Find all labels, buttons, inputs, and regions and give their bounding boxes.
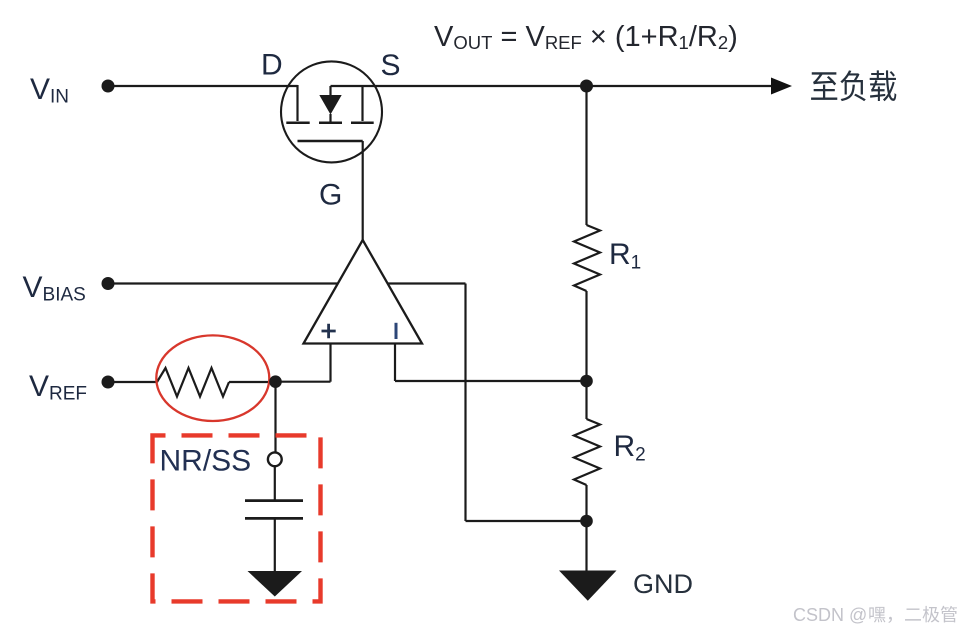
svg-text:D: D	[261, 49, 283, 82]
wire resistor to VREF node	[229, 381, 276, 383]
transistor Q1 source vertical	[361, 85, 363, 121]
node ground junction dot	[580, 515, 593, 528]
wire VOUT to R1	[585, 86, 587, 225]
wire midpoint to R2	[585, 381, 587, 419]
wire feedback vertical	[464, 284, 466, 522]
wire feedback bottom horizontal	[466, 520, 587, 522]
label to-load (Chinese)	[811, 72, 837, 100]
red highlight ellipse around resistor	[156, 335, 269, 421]
wire pin to capacitor	[274, 466, 276, 500]
node VIN terminal dot	[102, 80, 115, 93]
svg-text:GND: GND	[633, 569, 693, 599]
capacitor C1 (soft-start)	[245, 499, 303, 502]
wire minus input to midpoint	[395, 380, 587, 382]
wire VREF to resistor	[108, 381, 157, 383]
resistor internal VREF (circled)	[157, 368, 229, 397]
ground GND symbol	[559, 571, 617, 601]
resistor R2	[574, 419, 600, 485]
transistor Q1 body-diode arrow	[329, 86, 331, 95]
node NR/SS open-circle pin	[268, 452, 282, 466]
wire plus input vertical	[329, 344, 331, 382]
red dashed highlight box around NR/SS network	[153, 435, 321, 601]
arrowhead to load	[771, 78, 792, 95]
resistor R1	[574, 225, 600, 291]
svg-text:CSDN @: CSDN @	[793, 605, 867, 625]
node VREF junction dot	[269, 375, 282, 388]
wire minus input vertical	[394, 344, 396, 382]
wire VIN to MOSFET drain	[108, 85, 298, 87]
node VBIAS terminal dot	[102, 277, 115, 290]
wire R1 to midpoint	[585, 291, 587, 381]
transistor Q1 channel bars	[286, 122, 309, 125]
wire capacitor to ground	[274, 518, 276, 571]
svg-text:NR/SS: NR/SS	[160, 445, 252, 478]
wire op-amp right side horizontal	[388, 282, 466, 284]
wire VBIAS to op-amp	[108, 282, 338, 284]
svg-text:G: G	[319, 179, 342, 212]
wire gate to op-amp output	[362, 141, 364, 240]
op-amp U1 minus input marker (vertical bar)	[395, 323, 398, 339]
op-amp U1 error amplifier	[304, 240, 423, 344]
wire to GND symbol	[585, 521, 587, 571]
ground symbol under capacitor	[248, 571, 303, 597]
op-amp U1 plus input marker	[322, 324, 336, 339]
svg-text:S: S	[381, 49, 401, 82]
wire plus input to VREF node	[276, 381, 331, 383]
node feedback midpoint dot	[580, 375, 593, 388]
transistor Q1 gate plate	[298, 140, 363, 143]
wire source to load	[331, 85, 773, 87]
wire VREF node down to NR/SS pin	[274, 382, 276, 453]
transistor Q1 PMOS circle body	[281, 61, 382, 162]
node VREF terminal dot	[102, 376, 115, 389]
wire R2 to ground node	[585, 485, 587, 521]
transistor Q1 drain vertical	[296, 85, 298, 121]
node VOUT junction dot	[580, 80, 593, 93]
